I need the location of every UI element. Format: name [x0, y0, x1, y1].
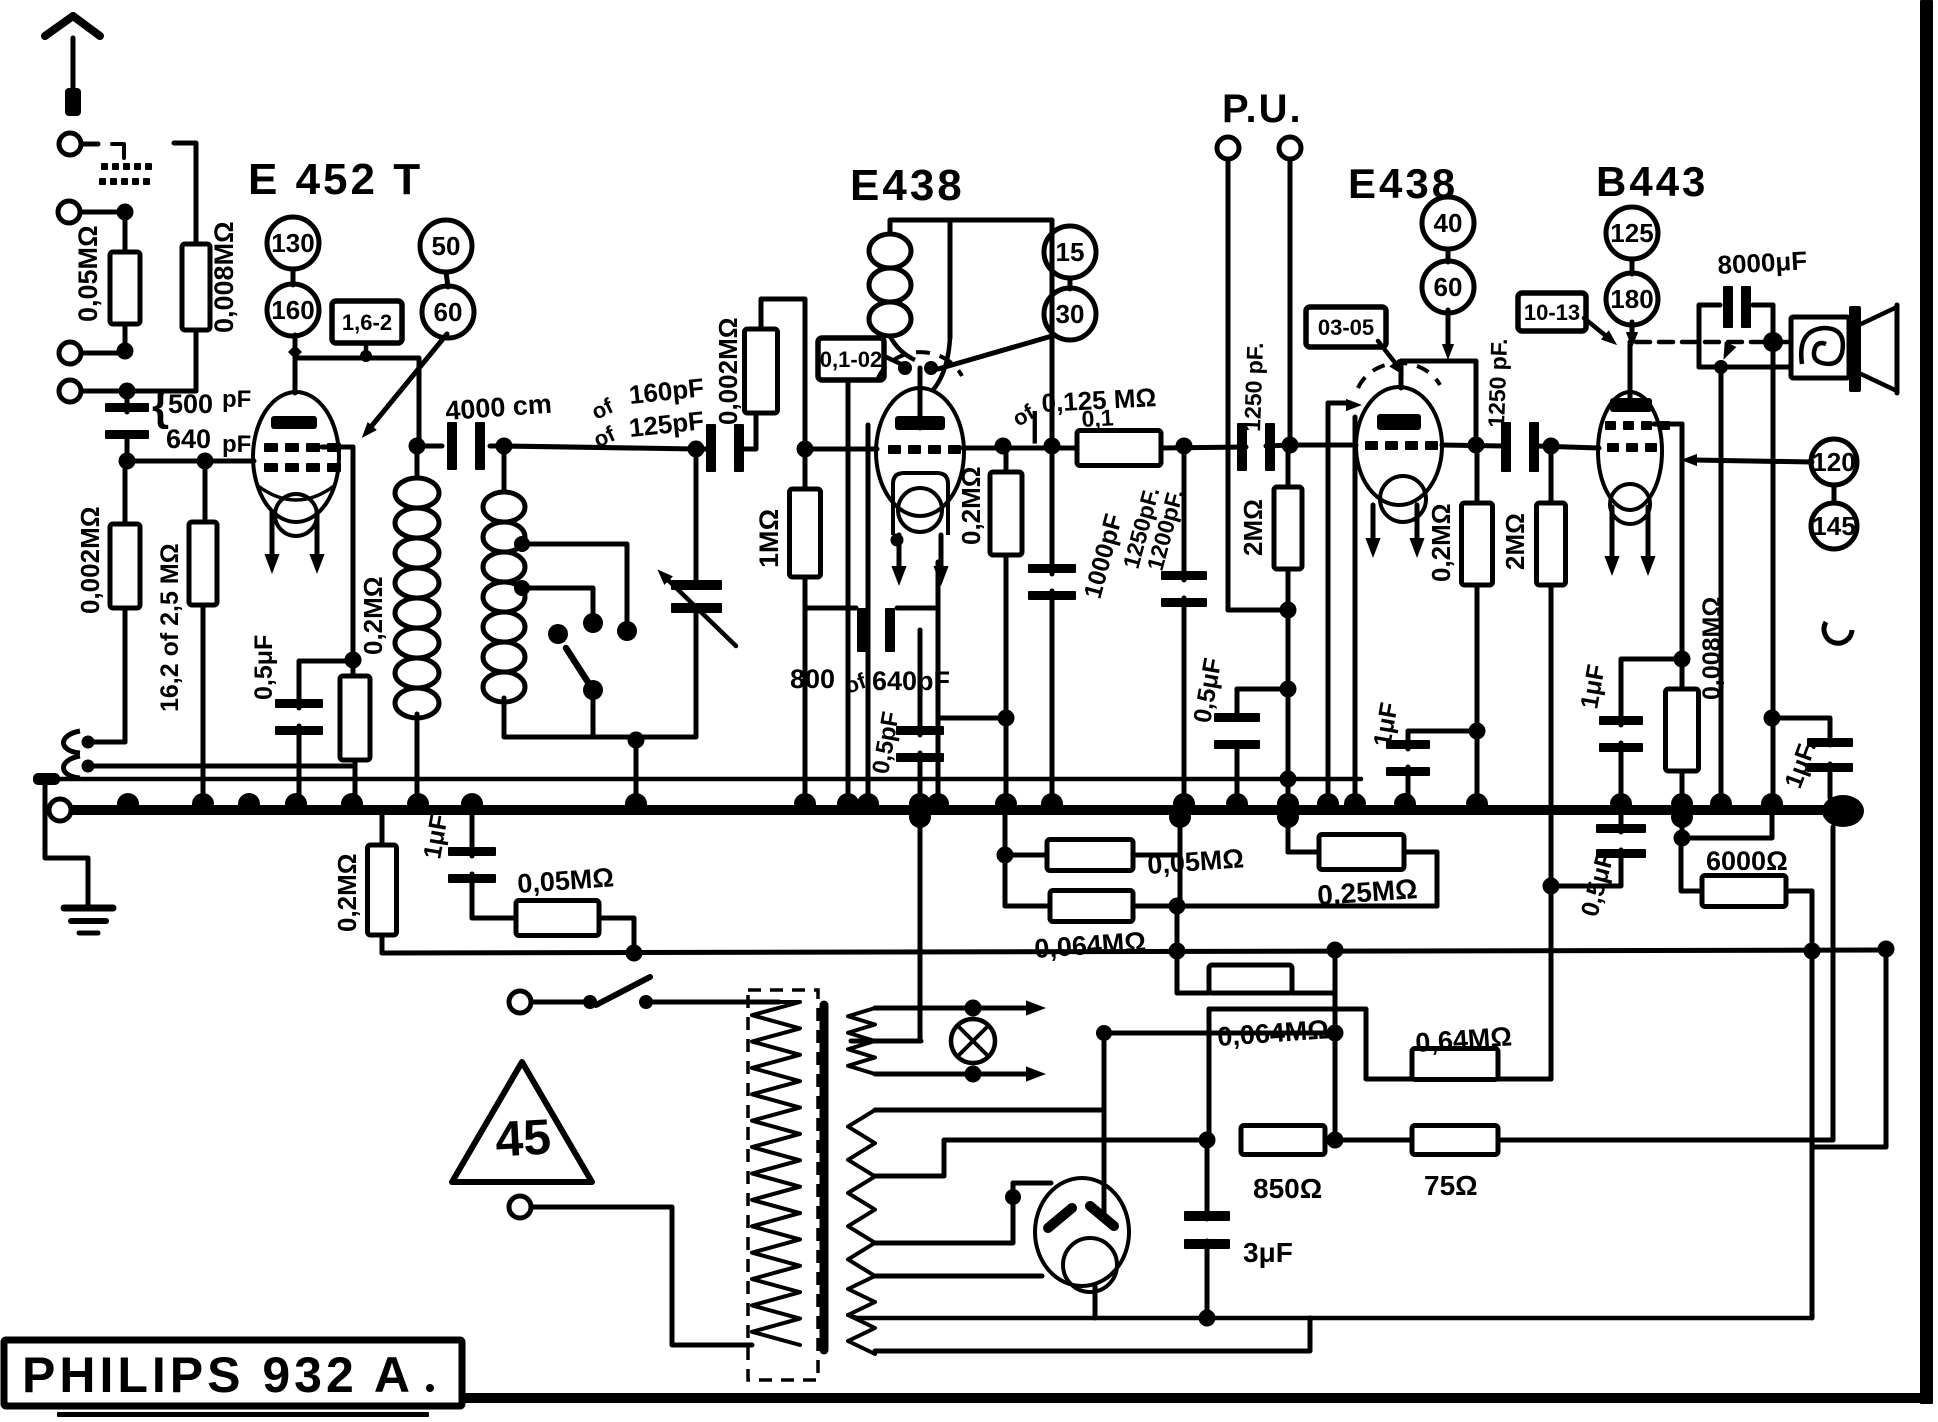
svg-text:1250 pF.: 1250 pF. — [1483, 338, 1512, 428]
svg-text:pF: pF — [222, 386, 251, 413]
svg-text:75Ω: 75Ω — [1424, 1170, 1478, 1201]
svg-text:15: 15 — [1056, 237, 1085, 267]
svg-text:pF: pF — [222, 431, 251, 458]
svg-text:0,002MΩ: 0,002MΩ — [713, 317, 743, 425]
svg-text:30: 30 — [1056, 299, 1085, 329]
svg-text:1,6-2: 1,6-2 — [342, 310, 392, 335]
svg-text:0,1-02: 0,1-02 — [820, 347, 882, 372]
svg-text:{: { — [152, 381, 169, 430]
svg-text:0,2MΩ: 0,2MΩ — [358, 576, 388, 655]
svg-text:3μF: 3μF — [1243, 1237, 1293, 1268]
svg-text:0,2MΩ: 0,2MΩ — [1426, 503, 1456, 582]
svg-text:03-05: 03-05 — [1318, 315, 1374, 340]
svg-text:2MΩ: 2MΩ — [1238, 499, 1268, 556]
svg-text:0,2MΩ: 0,2MΩ — [332, 853, 362, 932]
svg-text:8000μF: 8000μF — [1717, 245, 1808, 280]
svg-text:1250 pF.: 1250 pF. — [1239, 342, 1268, 432]
svg-text:E 452 T: E 452 T — [248, 155, 423, 204]
svg-text:160: 160 — [271, 295, 314, 325]
svg-text:120: 120 — [1812, 447, 1855, 477]
svg-text:60: 60 — [434, 297, 463, 327]
svg-text:800: 800 — [790, 664, 835, 694]
svg-text:50: 50 — [432, 231, 461, 261]
svg-text:850Ω: 850Ω — [1253, 1173, 1322, 1204]
svg-text:B443: B443 — [1596, 158, 1708, 205]
svg-text:0,2MΩ: 0,2MΩ — [956, 466, 986, 545]
svg-text:45: 45 — [494, 1109, 552, 1168]
svg-text:16,2 of 2,5 MΩ: 16,2 of 2,5 MΩ — [156, 543, 184, 712]
svg-text:125: 125 — [1610, 218, 1653, 248]
svg-text:40: 40 — [1434, 208, 1463, 238]
svg-text:60: 60 — [1434, 272, 1463, 302]
svg-text:0,5μF: 0,5μF — [250, 635, 278, 700]
svg-text:P.U.: P.U. — [1222, 87, 1303, 131]
svg-text:130: 130 — [271, 228, 314, 258]
svg-text:10-13: 10-13 — [1524, 300, 1580, 325]
svg-text:|: | — [1030, 406, 1040, 444]
svg-text:0,1: 0,1 — [1081, 404, 1114, 432]
svg-text:PHILIPS 932 A: PHILIPS 932 A — [22, 1347, 414, 1403]
svg-text:0,002MΩ: 0,002MΩ — [75, 506, 105, 614]
svg-text:2MΩ: 2MΩ — [1500, 513, 1530, 570]
svg-text:E438: E438 — [850, 161, 965, 210]
svg-text:145: 145 — [1812, 511, 1855, 541]
svg-text:640: 640 — [166, 424, 211, 454]
svg-text:0,008MΩ: 0,008MΩ — [209, 221, 239, 333]
svg-text:180: 180 — [1610, 284, 1653, 314]
svg-text:0,05MΩ: 0,05MΩ — [73, 225, 103, 322]
svg-text:6000Ω: 6000Ω — [1706, 846, 1788, 876]
svg-text:1MΩ: 1MΩ — [754, 509, 784, 568]
svg-text:500: 500 — [168, 389, 213, 419]
